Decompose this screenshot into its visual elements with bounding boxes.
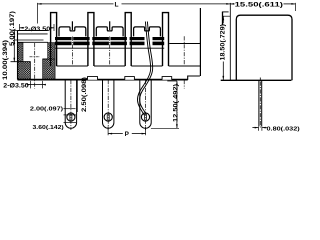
right end plate <box>222 12 229 25</box>
svg-text:18.50(.729): 18.50(.729) <box>219 24 226 61</box>
18.50 dim <box>222 16 224 23</box>
lug centerlines <box>71 80 146 130</box>
svg-text:10.00(.394): 10.00(.394) <box>2 40 9 80</box>
svg-text:2-Ø3.50: 2-Ø3.50 <box>3 83 29 89</box>
line under bars <box>55 47 164 49</box>
bottom 2-03.50 dim <box>27 84 43 86</box>
leaders at lug1 <box>64 108 76 110</box>
hatch left wall upper <box>18 43 23 62</box>
clamps (cells 1-3) <box>59 27 160 37</box>
W5 line / right segment <box>199 8 201 76</box>
white breaks at centerlines through bars <box>72 37 74 46</box>
15.50 dim <box>230 3 234 5</box>
top 2-03.50 dim <box>19 24 21 31</box>
hatch right column upper <box>48 43 55 59</box>
tab pin <box>259 78 262 128</box>
hatch right column lower <box>43 59 56 79</box>
flange step line left <box>11 61 31 63</box>
mounting hole horizontal centerline cross <box>30 56 41 58</box>
clamp cell 3, center 147 <box>134 27 161 37</box>
2.50 vertical dim <box>76 80 78 112</box>
svg-text:2-Ø3.50: 2-Ø3.50 <box>24 27 51 33</box>
svg-text:3.60(.142): 3.60(.142) <box>33 125 64 131</box>
body bottom edge <box>18 79 188 81</box>
cell 4 floor <box>169 43 200 45</box>
svg-text:L: L <box>115 1 119 8</box>
svg-text:15.50(.611): 15.50(.611) <box>235 2 283 9</box>
mounting hole centerline <box>34 43 36 89</box>
svg-text:0.80(.032): 0.80(.032) <box>267 126 300 132</box>
clamp cell 2, center 109.7 <box>96 27 123 37</box>
0.80 dim <box>252 127 258 129</box>
L dim <box>38 3 114 5</box>
clamp plate bars (black) <box>55 37 164 45</box>
clamp cell 1, center 72.4 <box>59 27 86 37</box>
barrier walls W1-W4 <box>51 13 169 66</box>
wire into terminal 3 <box>137 22 152 116</box>
rotated texts <box>2 11 226 122</box>
svg-text:P: P <box>125 131 130 136</box>
body left edge <box>17 31 19 80</box>
bottom bosses <box>88 77 172 80</box>
arrowheads <box>13 3 295 135</box>
top edge lines (left end segment) <box>18 30 48 32</box>
12.50 dim <box>167 80 177 82</box>
solder lugs <box>65 80 151 128</box>
svg-text:2.50(.098): 2.50(.098) <box>81 77 88 112</box>
hatch left flange lower <box>18 62 31 79</box>
cell centerlines upper <box>72 36 184 88</box>
svg-text:5.00(.197): 5.00(.197) <box>9 11 16 46</box>
5.00 / 10.00 vertical dims <box>13 31 15 62</box>
cell floors y66 <box>57 65 201 67</box>
screw slot ticks cells 1,2 <box>71 21 73 30</box>
P dim <box>107 127 109 136</box>
svg-text:2.00(.097): 2.00(.097) <box>30 107 63 113</box>
svg-text:12.50(.492): 12.50(.492) <box>173 84 180 122</box>
flange step line right <box>43 58 49 60</box>
cavity ledge line <box>18 41 49 43</box>
